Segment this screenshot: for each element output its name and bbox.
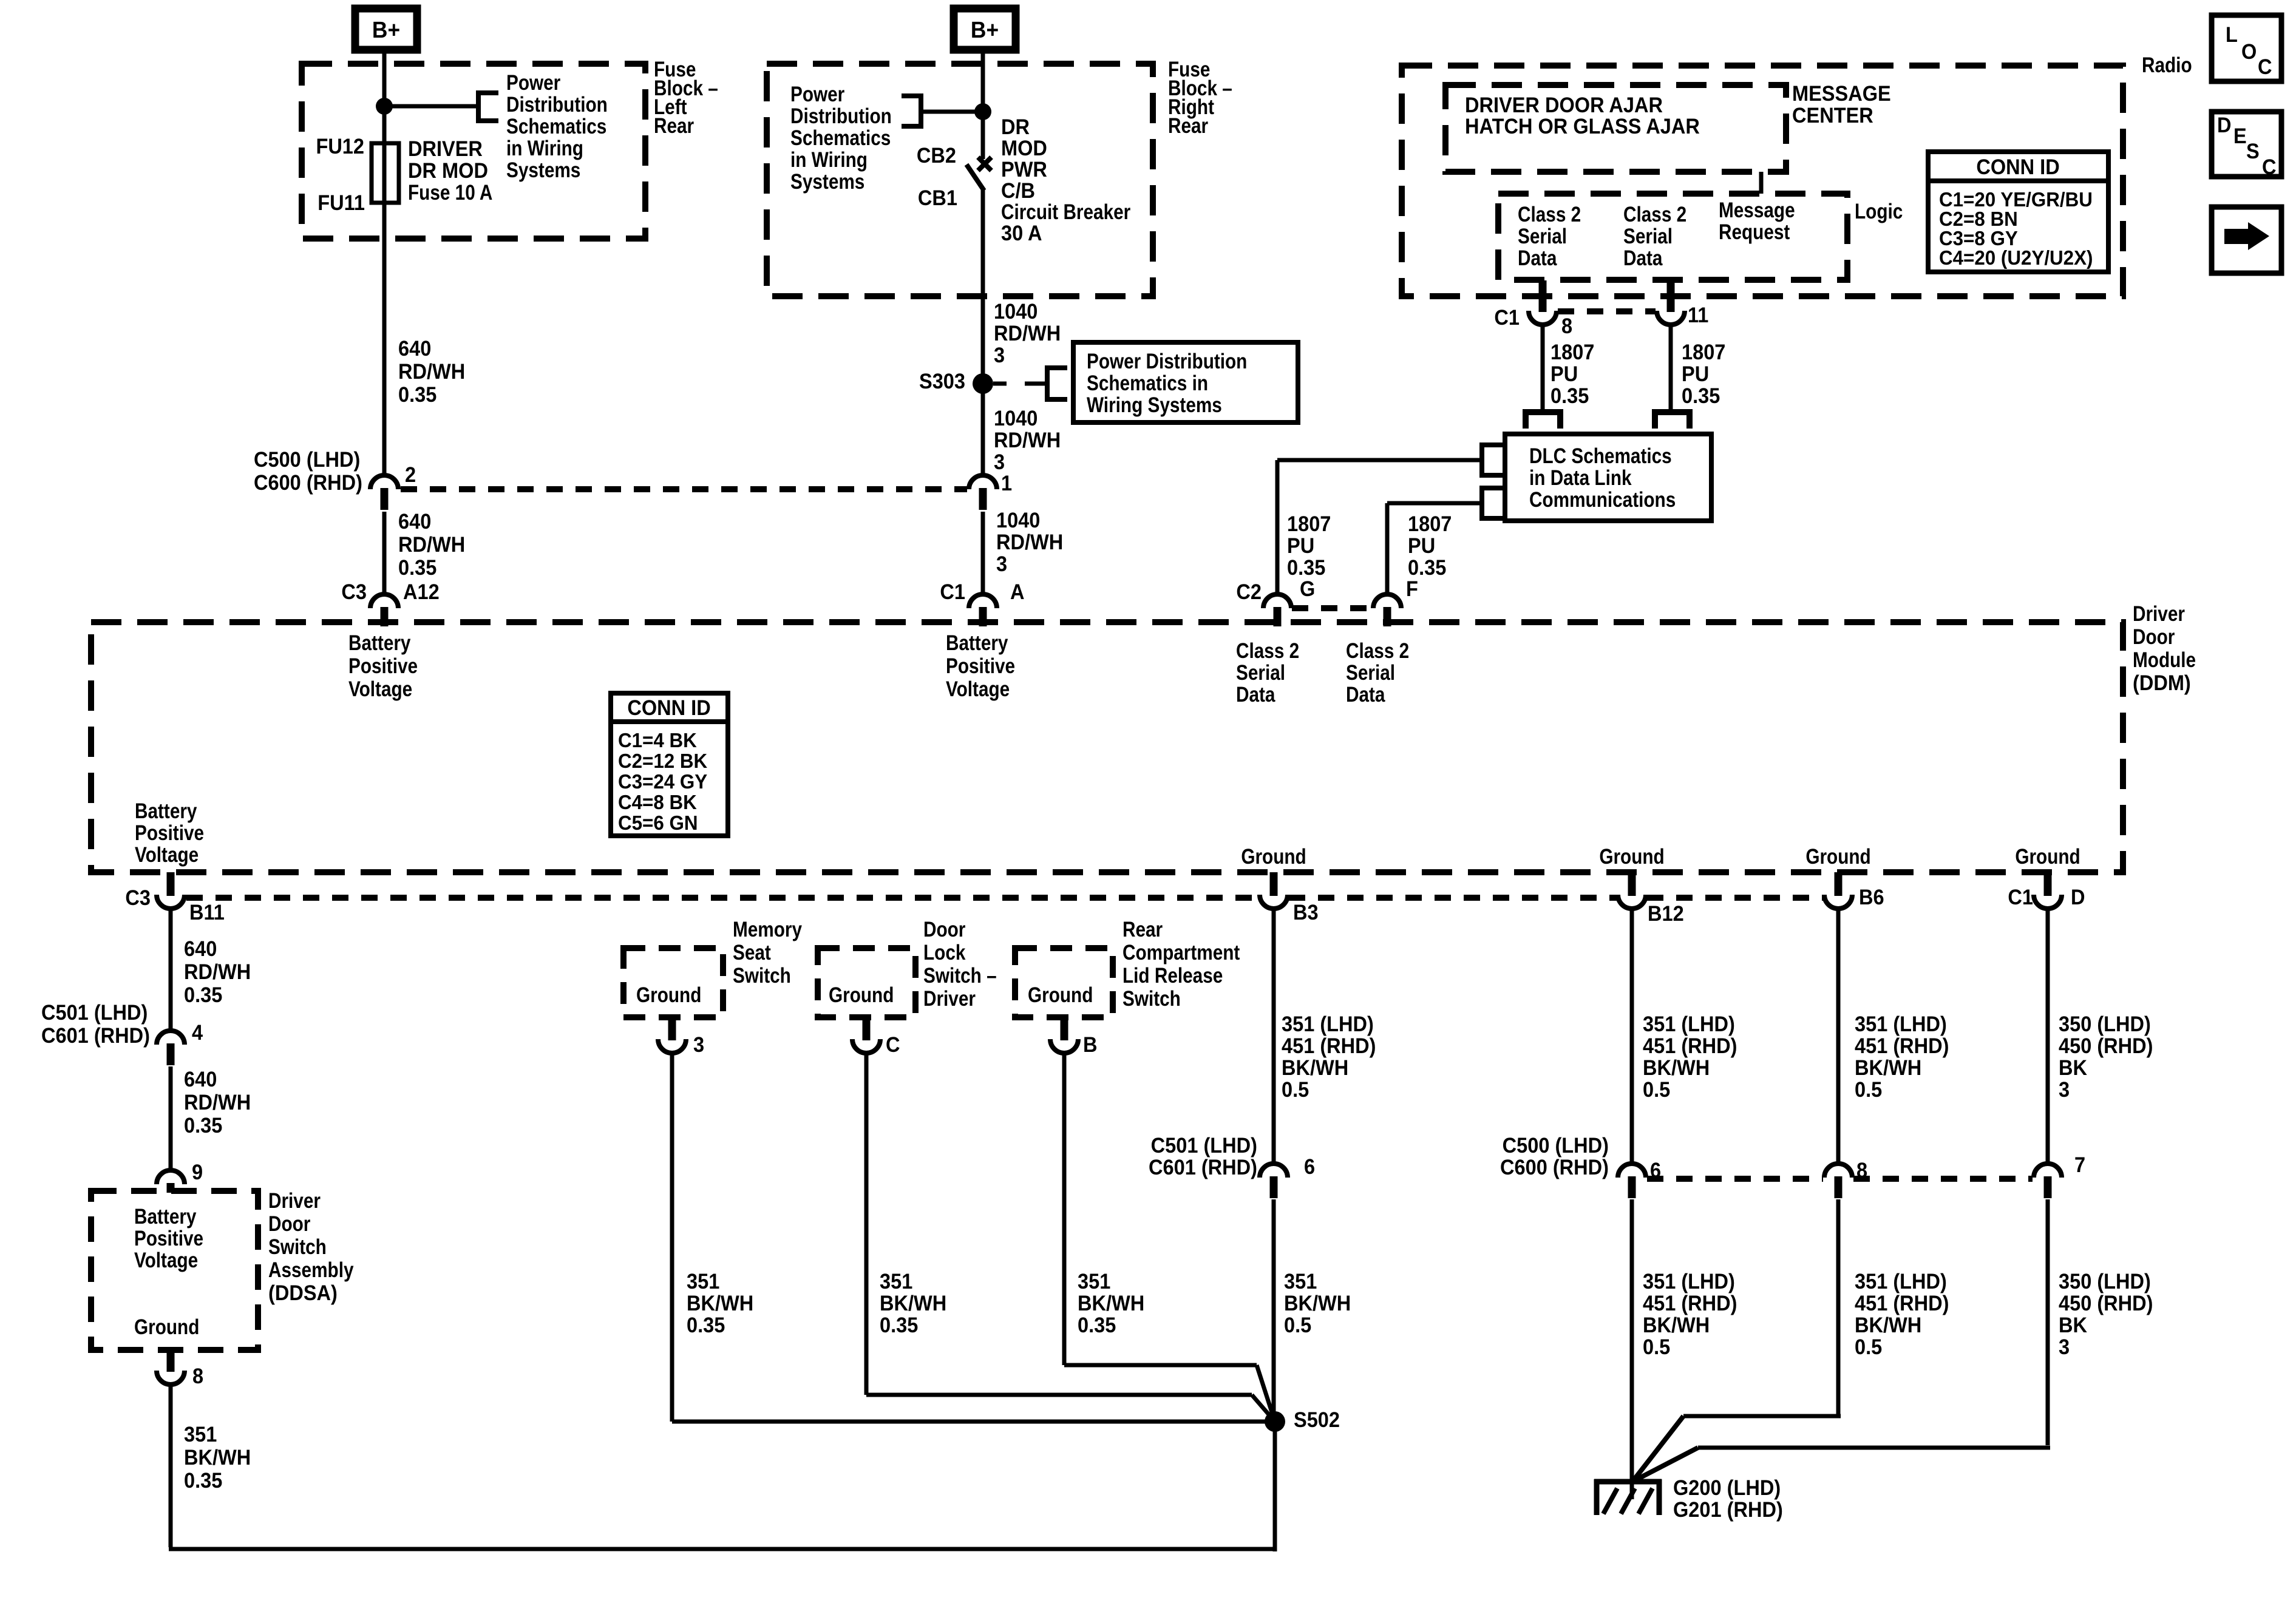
- svg-text:BK: BK: [2059, 1056, 2088, 1080]
- svg-text:Schematics: Schematics: [506, 115, 606, 138]
- connector C501/C601 pin 6: [1260, 1164, 1288, 1178]
- svg-text:BK/WH: BK/WH: [880, 1292, 946, 1315]
- wire connector 6 to ground G200: [1630, 1199, 1634, 1484]
- boxed label Power Distribution Schematics in Wiring Systems: [1073, 342, 1298, 422]
- svg-text:1807: 1807: [1287, 512, 1331, 536]
- bracket (schematic reference, right fuse block): [902, 96, 921, 126]
- svg-text:350 (LHD): 350 (LHD): [2059, 1012, 2151, 1036]
- svg-text:Schematics: Schematics: [790, 126, 891, 150]
- wire B6 to connector 8: [1836, 907, 1841, 1165]
- svg-text:Systems: Systems: [790, 170, 864, 194]
- svg-text:1040: 1040: [994, 300, 1038, 324]
- svg-text:C: C: [2262, 155, 2277, 179]
- svg-text:Voltage: Voltage: [946, 677, 1010, 701]
- svg-text:Battery: Battery: [134, 1205, 196, 1229]
- svg-text:C501 (LHD): C501 (LHD): [1151, 1134, 1257, 1158]
- svg-text:BK/WH: BK/WH: [1078, 1292, 1144, 1315]
- svg-text:B: B: [1083, 1033, 1098, 1057]
- svg-text:351 (LHD): 351 (LHD): [1855, 1012, 1947, 1036]
- connector C1 pin A (DDM): [969, 594, 997, 608]
- svg-text:640: 640: [398, 510, 431, 534]
- svg-text:0.5: 0.5: [1282, 1078, 1309, 1102]
- svg-text:451 (RHD): 451 (RHD): [1855, 1034, 1949, 1058]
- svg-text:A12: A12: [403, 580, 440, 604]
- svg-text:B11: B11: [189, 901, 225, 924]
- svg-text:C: C: [2258, 55, 2272, 79]
- svg-text:MOD: MOD: [1001, 137, 1047, 160]
- svg-text:1807: 1807: [1408, 512, 1452, 536]
- svg-text:3: 3: [2059, 1078, 2070, 1102]
- svg-text:C3=24 GY: C3=24 GY: [618, 770, 707, 793]
- svg-text:3: 3: [996, 552, 1007, 576]
- svg-text:0.35: 0.35: [1550, 384, 1589, 408]
- svg-text:PU: PU: [1408, 534, 1435, 558]
- svg-text:3: 3: [693, 1033, 704, 1057]
- wire connector 1 to C1-A: [981, 512, 985, 595]
- svg-text:Switch: Switch: [733, 964, 791, 988]
- svg-text:CONN ID: CONN ID: [1976, 155, 2059, 179]
- wire to schematic reference bracket: [392, 104, 480, 109]
- svg-text:Ground: Ground: [636, 983, 701, 1007]
- splice S502: [1265, 1411, 1285, 1432]
- wire C1-D to connector 7: [2046, 907, 2050, 1165]
- svg-text:Power: Power: [790, 83, 845, 106]
- connector pin 3 (memory seat): [658, 1039, 686, 1053]
- svg-text:E: E: [2233, 124, 2247, 148]
- svg-text:BK/WH: BK/WH: [1284, 1292, 1351, 1315]
- svg-text:Data: Data: [1623, 246, 1663, 270]
- svg-text:351 (LHD): 351 (LHD): [1643, 1270, 1735, 1293]
- svg-text:0.5: 0.5: [1855, 1335, 1882, 1359]
- svg-text:8: 8: [192, 1364, 203, 1388]
- svg-text:BK/WH: BK/WH: [1855, 1314, 1921, 1337]
- LOC nav box: [2212, 15, 2281, 81]
- wire bottom run to S502: [169, 1547, 1275, 1551]
- bracket DLC lower (class 2 from F): [1482, 488, 1503, 518]
- svg-text:351 (LHD): 351 (LHD): [1643, 1012, 1735, 1036]
- wire radio pin 8 down: [1541, 324, 1545, 411]
- svg-text:0.35: 0.35: [184, 1469, 222, 1493]
- radio (dashed box): [1402, 66, 2123, 296]
- svg-text:RD/WH: RD/WH: [184, 1091, 251, 1114]
- inline dotted line 8-7: [1853, 1176, 2033, 1182]
- logic (dashed box): [1498, 194, 1847, 280]
- connector C500/C600 pin 1: [969, 475, 997, 489]
- wire B3 to connector 6: [1272, 907, 1276, 1165]
- svg-text:S502: S502: [1294, 1408, 1340, 1432]
- connector pin 8 (DDSA bottom): [157, 1371, 185, 1385]
- svg-text:Rear: Rear: [1168, 114, 1208, 138]
- inline harness dotted line C500 to C600: [401, 486, 967, 492]
- svg-text:Ground: Ground: [134, 1315, 199, 1339]
- connector pin 8 (C500 row): [1824, 1164, 1852, 1178]
- svg-text:Battery: Battery: [348, 631, 410, 655]
- connector pin B (rear compartment): [1050, 1039, 1078, 1053]
- wire pin 3 to S502: [670, 1052, 674, 1422]
- inline dotted line 6-8: [1647, 1176, 1823, 1182]
- svg-text:Positive: Positive: [134, 1227, 203, 1250]
- svg-text:C: C: [886, 1033, 900, 1057]
- ground G200/G201 symbol: [1594, 1479, 1662, 1485]
- svg-text:PU: PU: [1682, 362, 1709, 386]
- svg-text:B+: B+: [372, 17, 400, 42]
- svg-text:Ground: Ground: [1241, 845, 1306, 869]
- svg-text:B3: B3: [1293, 901, 1319, 924]
- svg-text:Ground: Ground: [1805, 845, 1870, 869]
- svg-text:Lock: Lock: [923, 941, 966, 964]
- svg-text:640: 640: [184, 937, 217, 961]
- svg-text:351: 351: [880, 1270, 912, 1293]
- svg-text:Data: Data: [1518, 246, 1557, 270]
- driver door switch assembly DDSA (dashed box): [91, 1191, 258, 1350]
- svg-text:Battery: Battery: [135, 799, 197, 823]
- svg-text:in Wiring: in Wiring: [790, 148, 868, 172]
- svg-text:Rear: Rear: [654, 114, 694, 138]
- svg-text:RD/WH: RD/WH: [994, 322, 1061, 345]
- svg-text:Class 2: Class 2: [1623, 203, 1686, 226]
- wire fuse to connector C500-2: [382, 143, 387, 476]
- svg-text:RD/WH: RD/WH: [398, 533, 465, 557]
- svg-text:0.35: 0.35: [880, 1314, 918, 1337]
- svg-text:351 (LHD): 351 (LHD): [1282, 1012, 1374, 1036]
- svg-text:450 (RHD): 450 (RHD): [2059, 1034, 2153, 1058]
- svg-text:Voltage: Voltage: [135, 843, 199, 867]
- DESC nav box: [2212, 112, 2281, 177]
- door lock switch - driver (dashed box): [818, 948, 915, 1017]
- svg-text:451 (RHD): 451 (RHD): [1282, 1034, 1376, 1058]
- svg-text:CONN ID: CONN ID: [627, 696, 710, 720]
- svg-text:C3: C3: [125, 886, 151, 910]
- svg-text:Schematics in: Schematics in: [1087, 371, 1208, 395]
- svg-text:Ground: Ground: [2015, 845, 2080, 869]
- svg-text:in Wiring: in Wiring: [506, 137, 583, 160]
- wire from B+ into left fuse block: [382, 53, 387, 146]
- svg-text:S303: S303: [919, 370, 965, 393]
- svg-text:Ground: Ground: [1028, 983, 1093, 1007]
- wire DDSA pin 8 down: [169, 1383, 173, 1547]
- svg-text:C1: C1: [2008, 886, 2033, 909]
- svg-text:Switch: Switch: [268, 1235, 327, 1259]
- svg-text:D: D: [2071, 886, 2085, 909]
- svg-text:Ground: Ground: [1599, 845, 1664, 869]
- svg-text:0.5: 0.5: [1855, 1078, 1882, 1102]
- svg-text:4: 4: [192, 1021, 203, 1045]
- svg-text:C500 (LHD): C500 (LHD): [254, 448, 360, 472]
- svg-text:350 (LHD): 350 (LHD): [2059, 1270, 2151, 1293]
- fuse block - right rear (dashed box): [767, 64, 1153, 296]
- svg-text:C4=8 BK: C4=8 BK: [618, 791, 697, 813]
- svg-text:BK/WH: BK/WH: [1282, 1056, 1348, 1080]
- wire connector 7 to ground: [2046, 1199, 2050, 1445]
- wire connector 6 to S502: [1272, 1199, 1276, 1422]
- svg-text:Serial: Serial: [1518, 225, 1567, 248]
- arrow nav box: [2212, 207, 2281, 273]
- svg-text:1807: 1807: [1550, 341, 1594, 364]
- wire connector 8 to ground: [1836, 1199, 1841, 1414]
- wire F to DLC bracket: [1387, 501, 1482, 506]
- node junction dot in right fuse block: [974, 103, 991, 120]
- radio CONN ID box: [1928, 152, 2108, 272]
- wire B11 down to connector 4: [169, 907, 173, 1032]
- connector C1 pin D: [2034, 895, 2062, 909]
- svg-text:Serial: Serial: [1236, 661, 1285, 685]
- svg-text:Communications: Communications: [1529, 488, 1676, 512]
- svg-text:C600 (RHD): C600 (RHD): [1500, 1156, 1609, 1179]
- svg-text:6: 6: [1304, 1155, 1315, 1179]
- svg-text:Door: Door: [268, 1212, 311, 1236]
- svg-text:in Data Link: in Data Link: [1529, 466, 1632, 490]
- svg-text:9: 9: [192, 1161, 203, 1184]
- svg-text:0.35: 0.35: [398, 383, 436, 407]
- svg-text:C1=4 BK: C1=4 BK: [618, 729, 697, 751]
- svg-text:3: 3: [2059, 1335, 2070, 1359]
- svg-text:640: 640: [398, 337, 431, 361]
- svg-text:BK/WH: BK/WH: [687, 1292, 753, 1315]
- svg-text:3: 3: [994, 450, 1005, 474]
- svg-text:CENTER: CENTER: [1792, 104, 1873, 127]
- svg-text:2: 2: [405, 463, 416, 487]
- svg-text:0.35: 0.35: [687, 1314, 725, 1337]
- inline dotted line pins 8-11: [1558, 308, 1656, 314]
- svg-text:BK: BK: [2059, 1314, 2088, 1337]
- connector C3 pin B11: [157, 895, 185, 909]
- svg-text:Data: Data: [1346, 683, 1385, 707]
- svg-text:HATCH OR GLASS AJAR: HATCH OR GLASS AJAR: [1465, 115, 1700, 138]
- svg-text:Systems: Systems: [506, 158, 580, 182]
- svg-text:1040: 1040: [996, 509, 1040, 532]
- wire B12 to connector 6 (C500): [1630, 907, 1634, 1165]
- svg-text:Positive: Positive: [946, 654, 1015, 678]
- connector C3 pin A12 (DDM): [370, 594, 398, 608]
- svg-text:BK/WH: BK/WH: [1855, 1056, 1921, 1080]
- bracket DLC upper (class 2 from C2-G): [1482, 445, 1503, 475]
- svg-text:Class 2: Class 2: [1518, 203, 1581, 226]
- DLC receptacle symbol (pin 11 wire): [1655, 412, 1690, 429]
- svg-text:351: 351: [1284, 1270, 1317, 1293]
- svg-text:1807: 1807: [1682, 341, 1725, 364]
- svg-text:Driver: Driver: [923, 987, 976, 1011]
- svg-text:A: A: [1010, 580, 1025, 604]
- svg-text:0.35: 0.35: [1682, 384, 1720, 408]
- connector pin C (door lock): [852, 1039, 880, 1053]
- svg-text:Door: Door: [923, 918, 966, 941]
- wire message center to logic: [1759, 172, 1764, 194]
- svg-text:C4=20 (U2Y/U2X): C4=20 (U2Y/U2X): [1939, 246, 2093, 269]
- rear compartment lid release switch (dashed box): [1015, 948, 1113, 1017]
- svg-text:640: 640: [184, 1068, 217, 1091]
- svg-text:Serial: Serial: [1346, 661, 1395, 685]
- message center (dashed box): [1445, 85, 1786, 172]
- svg-text:F: F: [1406, 577, 1418, 601]
- svg-text:Class 2: Class 2: [1236, 639, 1299, 663]
- node junction dot in left fuse block: [376, 98, 393, 115]
- inline dotted line B12 to B6: [1647, 895, 1823, 901]
- svg-text:Fuse 10 A: Fuse 10 A: [408, 181, 492, 205]
- connector pin 11 (radio): [1657, 311, 1685, 325]
- svg-text:351: 351: [184, 1423, 217, 1446]
- svg-text:MESSAGE: MESSAGE: [1792, 82, 1891, 106]
- wire from B+ to breaker CB: [981, 53, 985, 159]
- svg-text:Distribution: Distribution: [506, 93, 608, 117]
- svg-text:Radio: Radio: [2142, 53, 2192, 77]
- svg-text:RD/WH: RD/WH: [184, 960, 251, 984]
- wire stub S303 to bracket: [993, 382, 1007, 386]
- svg-text:Power Distribution: Power Distribution: [1087, 350, 1247, 373]
- wire connector 4 to connector 9: [169, 1066, 173, 1171]
- connector B3: [1260, 895, 1288, 909]
- svg-text:PU: PU: [1287, 534, 1314, 558]
- boxed label DLC Schematics in Data Link Communications: [1505, 434, 1711, 521]
- svg-text:C2=12 BK: C2=12 BK: [618, 750, 707, 772]
- svg-text:8: 8: [1561, 314, 1572, 338]
- svg-text:C/B: C/B: [1001, 179, 1035, 203]
- svg-text:(DDSA): (DDSA): [268, 1281, 338, 1305]
- connector pin F (DDM): [1373, 594, 1401, 608]
- svg-text:PWR: PWR: [1001, 158, 1047, 181]
- svg-text:Serial: Serial: [1623, 225, 1673, 248]
- power symbol B+ (left feed): [355, 8, 417, 50]
- svg-text:DR: DR: [1001, 115, 1030, 139]
- svg-text:B6: B6: [1859, 886, 1884, 909]
- svg-text:351: 351: [687, 1270, 719, 1293]
- connector C501/C601 pin 4: [157, 1031, 185, 1045]
- svg-text:C501 (LHD): C501 (LHD): [41, 1001, 148, 1025]
- svg-text:(DDM): (DDM): [2133, 671, 2191, 695]
- svg-text:Voltage: Voltage: [134, 1249, 198, 1272]
- svg-text:Circuit Breaker: Circuit Breaker: [1001, 200, 1131, 224]
- connector C1 pin 8 (radio): [1529, 311, 1557, 325]
- svg-text:BK/WH: BK/WH: [184, 1446, 251, 1470]
- DLC receptacle symbol (pin 8 wire): [1526, 412, 1560, 429]
- svg-text:O: O: [2241, 40, 2257, 64]
- svg-text:Request: Request: [1719, 220, 1790, 244]
- svg-text:Assembly: Assembly: [268, 1258, 354, 1282]
- svg-text:Positive: Positive: [135, 821, 204, 845]
- wire radio pin 11 down: [1669, 324, 1673, 411]
- svg-text:C500 (LHD): C500 (LHD): [1503, 1134, 1609, 1158]
- svg-text:11: 11: [1688, 303, 1708, 327]
- svg-text:DRIVER DOOR AJAR: DRIVER DOOR AJAR: [1465, 93, 1663, 117]
- wire connector 2 to C3-A12: [382, 512, 387, 595]
- svg-text:Class 2: Class 2: [1346, 639, 1409, 663]
- svg-text:FU11: FU11: [318, 191, 365, 215]
- svg-text:1040: 1040: [994, 407, 1038, 430]
- driver door module DDM (dashed box): [91, 622, 2123, 872]
- svg-text:0.5: 0.5: [1643, 1078, 1670, 1102]
- svg-text:Switch: Switch: [1123, 987, 1181, 1011]
- svg-text:RD/WH: RD/WH: [996, 531, 1063, 554]
- svg-text:351 (LHD): 351 (LHD): [1855, 1270, 1947, 1293]
- svg-text:L: L: [2226, 23, 2238, 47]
- inline dotted line B11 to B3: [186, 895, 1258, 901]
- connector pin 9 (DDSA): [157, 1170, 185, 1184]
- svg-text:Compartment: Compartment: [1123, 941, 1240, 964]
- svg-text:RD/WH: RD/WH: [994, 429, 1061, 452]
- svg-text:0.35: 0.35: [1287, 556, 1325, 580]
- svg-text:Battery: Battery: [946, 631, 1008, 655]
- svg-text:FU12: FU12: [316, 135, 364, 158]
- svg-text:Message: Message: [1719, 198, 1795, 222]
- svg-text:0.35: 0.35: [1408, 556, 1446, 580]
- svg-text:7: 7: [2074, 1153, 2085, 1177]
- connector pin 7: [2034, 1164, 2062, 1178]
- connector B6: [1824, 895, 1852, 909]
- svg-text:0.35: 0.35: [184, 983, 222, 1007]
- svg-text:Data: Data: [1236, 683, 1275, 707]
- svg-text:30 A: 30 A: [1001, 222, 1042, 245]
- splice S303: [973, 373, 993, 394]
- svg-text:DRIVER: DRIVER: [408, 137, 483, 161]
- svg-text:1: 1: [1001, 472, 1012, 495]
- inline dotted line B3 to B12: [1289, 895, 1617, 901]
- svg-text:Driver: Driver: [268, 1189, 321, 1213]
- svg-text:G201 (RHD): G201 (RHD): [1673, 1498, 1783, 1522]
- wire pin B to S502: [1062, 1052, 1067, 1365]
- svg-text:DR MOD: DR MOD: [408, 159, 488, 183]
- svg-text:CB2: CB2: [917, 144, 956, 168]
- fuse block - left rear (dashed box): [302, 64, 645, 239]
- svg-text:Rear: Rear: [1123, 918, 1163, 941]
- svg-text:Memory: Memory: [733, 918, 802, 941]
- fuse FU12/FU11 DRIVER DR MOD Fuse 10 A: [372, 143, 399, 203]
- svg-text:BK/WH: BK/WH: [1643, 1314, 1710, 1337]
- DDM CONN ID box: [611, 693, 728, 836]
- svg-text:Module: Module: [2133, 648, 2196, 672]
- svg-text:451 (RHD): 451 (RHD): [1643, 1292, 1737, 1315]
- svg-text:PU: PU: [1550, 362, 1578, 386]
- svg-text:Positive: Positive: [348, 654, 418, 678]
- svg-text:G: G: [1300, 577, 1315, 601]
- wire bracket to node: [921, 110, 977, 114]
- svg-text:RD/WH: RD/WH: [398, 360, 465, 384]
- svg-text:351: 351: [1078, 1270, 1110, 1293]
- svg-text:Voltage: Voltage: [348, 677, 412, 701]
- svg-text:Ground: Ground: [829, 983, 894, 1007]
- connector C2 pin G (DDM): [1263, 594, 1291, 608]
- svg-text:S: S: [2246, 140, 2260, 163]
- wire S303 to connector 1: [981, 384, 985, 476]
- svg-text:C5=6 GN: C5=6 GN: [618, 812, 698, 834]
- svg-text:C1: C1: [940, 580, 965, 604]
- svg-text:B12: B12: [1648, 902, 1684, 926]
- svg-text:C600 (RHD): C600 (RHD): [254, 471, 362, 495]
- svg-text:451 (RHD): 451 (RHD): [1643, 1034, 1737, 1058]
- wire pin C to S502: [864, 1052, 869, 1395]
- svg-text:DLC Schematics: DLC Schematics: [1529, 444, 1672, 468]
- svg-text:Door: Door: [2133, 625, 2175, 649]
- svg-text:C601 (RHD): C601 (RHD): [1149, 1156, 1257, 1179]
- connector C500/C600 pin 6: [1618, 1164, 1646, 1178]
- svg-text:B+: B+: [971, 17, 999, 42]
- svg-text:0.5: 0.5: [1284, 1314, 1311, 1337]
- memory seat switch (dashed box): [623, 948, 723, 1017]
- svg-text:C601 (RHD): C601 (RHD): [41, 1024, 150, 1048]
- inline dotted line G-F: [1292, 605, 1373, 611]
- svg-text:G200 (LHD): G200 (LHD): [1673, 1476, 1781, 1500]
- svg-text:450 (RHD): 450 (RHD): [2059, 1292, 2153, 1315]
- svg-text:CB1: CB1: [918, 186, 957, 210]
- svg-text:Driver: Driver: [2133, 602, 2185, 626]
- power symbol B+ (right feed): [954, 8, 1016, 50]
- bracket (power distribution reference at S303): [1047, 368, 1067, 399]
- svg-text:C2: C2: [1236, 580, 1262, 604]
- svg-text:C3: C3: [341, 580, 367, 604]
- svg-text:Distribution: Distribution: [790, 104, 892, 128]
- wire C2-G to DLC bracket: [1277, 458, 1482, 463]
- svg-text:Power: Power: [506, 71, 561, 95]
- connector C500/C600 pin 2: [370, 475, 398, 489]
- svg-text:0.5: 0.5: [1643, 1335, 1670, 1359]
